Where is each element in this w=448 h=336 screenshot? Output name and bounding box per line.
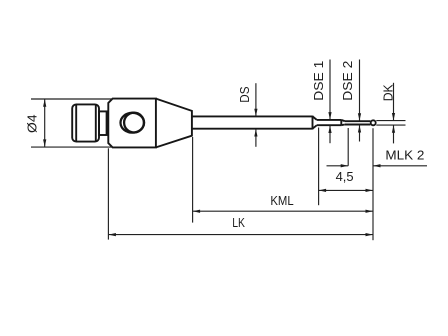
dim DSE1 lower line bbox=[329, 126, 331, 144]
svg-text:MLK 2: MLK 2 bbox=[385, 147, 424, 162]
extension line DSE1 start bbox=[318, 128, 320, 206]
thread bbox=[72, 104, 99, 141]
dim DK lower line bbox=[393, 125, 395, 143]
arrow Ø4 up bbox=[43, 99, 46, 107]
dim Ø4 dimension line bbox=[44, 99, 46, 147]
shaft bottom line bbox=[192, 128, 313, 130]
dim 4,5 line bbox=[319, 189, 373, 191]
arrow LK right bbox=[366, 233, 374, 236]
arrow DK down bbox=[392, 113, 395, 121]
arrow Ø4 down bbox=[43, 139, 46, 147]
dim DSE1 upper line bbox=[329, 60, 331, 120]
svg-text:4,5: 4,5 bbox=[336, 169, 354, 184]
stem DSE1 bottom line bbox=[317, 124, 342, 126]
extension line body left bbox=[107, 148, 109, 239]
arrow DSE2 down bbox=[358, 113, 361, 121]
wrench hole outer bbox=[121, 113, 145, 133]
dim Ø4 top extension line bbox=[31, 98, 113, 100]
thread chamfer line right bbox=[95, 105, 97, 142]
arrow 4,5 left bbox=[319, 189, 327, 192]
stem step chamfer top bbox=[341, 120, 345, 121]
svg-text:Ø4: Ø4 bbox=[25, 114, 40, 133]
shaft top line bbox=[192, 115, 313, 117]
neck bbox=[99, 111, 107, 135]
arrow KML right bbox=[366, 210, 374, 213]
dim DS upper line bbox=[255, 83, 257, 116]
dim MLK2 line left bbox=[327, 165, 349, 167]
svg-text:DSE 2: DSE 2 bbox=[340, 61, 355, 101]
svg-text:DK: DK bbox=[381, 84, 396, 101]
dim DK upper line bbox=[393, 83, 395, 121]
stem DSE2 top line bbox=[345, 120, 371, 122]
shaft taper bottom bbox=[313, 125, 317, 129]
thread chamfer line left bbox=[75, 105, 77, 142]
dim DS lower line bbox=[255, 129, 257, 147]
ball tangent extension top bbox=[376, 120, 405, 122]
extension line stem step bbox=[347, 128, 349, 166]
shaft end edge bbox=[312, 116, 314, 130]
arrow DS up bbox=[254, 129, 257, 137]
stem DSE2 bottom line bbox=[345, 124, 371, 126]
dim MLK2 line right bbox=[373, 165, 427, 167]
dim KML line bbox=[193, 210, 373, 212]
dim LK line bbox=[108, 234, 373, 236]
arrow DSE1 up bbox=[328, 126, 331, 134]
ball tip DK bbox=[371, 120, 376, 125]
extension line ball center bbox=[372, 128, 374, 240]
wrench hole inner bbox=[124, 113, 144, 133]
arrow MLK2 left bbox=[373, 164, 381, 167]
stem step chamfer bottom bbox=[341, 124, 345, 127]
arrow LK left bbox=[108, 233, 116, 236]
svg-text:DS: DS bbox=[237, 86, 252, 103]
cone bbox=[156, 99, 192, 148]
stem step edge bbox=[340, 120, 342, 125]
svg-text:LK: LK bbox=[232, 215, 245, 230]
ball tangent extension bottom bbox=[376, 124, 405, 126]
stem DSE1 top line bbox=[317, 119, 342, 121]
dim DSE2 upper line bbox=[359, 60, 361, 121]
svg-text:KML: KML bbox=[270, 193, 293, 208]
shaft taper top bbox=[313, 116, 317, 120]
body bbox=[108, 99, 156, 148]
arrow DS down bbox=[254, 109, 257, 117]
svg-text:DSE 1: DSE 1 bbox=[311, 61, 326, 101]
dim Ø4 bottom extension line bbox=[31, 146, 113, 148]
arrow 4,5 right bbox=[366, 189, 374, 192]
arrow KML left bbox=[193, 210, 201, 213]
dim DSE2 lower line bbox=[359, 125, 361, 142]
extension line cone end bbox=[192, 137, 194, 223]
arrow DK up bbox=[392, 125, 395, 133]
arrow DSE2 up bbox=[358, 125, 361, 133]
arrow DSE1 down bbox=[328, 112, 331, 120]
arrow MLK2 right bbox=[341, 164, 349, 167]
